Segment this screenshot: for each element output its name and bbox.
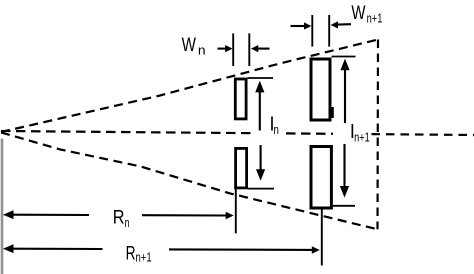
Wn dimension right tick [248,33,250,66]
Rn+1 dimension tick below zone n+1 [321,210,323,266]
zone n lower rectangle [236,148,247,188]
extension line from top of zone n upper rectangle [248,77,274,79]
axis baseline (gray vertical line at left) [1,139,4,274]
extension line from top of zone n+1 upper rectangle [332,56,356,58]
wire: right vertical dashed aperture line [376,40,379,230]
Wn dimension left tick [232,33,234,66]
extension line from bottom of zone n lower rectangle [248,188,274,190]
svg-text:n: n [274,122,279,137]
wire: upper dashed ray from apex to top-right corner [1,40,378,133]
ln+1 upper arrow pointing up [344,67,346,123]
svg-text:n+1: n+1 [136,250,152,265]
Rn dimension line with right arrow [142,214,227,216]
wire: lower dashed ray from apex to bottom-right corner [1,133,378,230]
Wn right arrow pointing left [258,48,270,50]
Rn+1 dimension line with right arrow [169,248,313,251]
svg-text:n: n [125,215,130,230]
zone n upper rectangle [235,79,246,119]
svg-text:n: n [198,43,206,58]
ln+1 lower arrow pointing down [343,144,345,189]
svg-text:W: W [351,3,365,24]
double-stroke artifact on right edge of zone n+1 upper rectangle [331,107,333,118]
svg-text:W: W [182,35,196,56]
svg-text:n+1: n+1 [367,10,383,25]
ln lower arrow pointing down [260,145,262,173]
Rn dimension line with left arrow [3,210,14,219]
Wn left arrow pointing right [218,48,227,50]
wire: central axis dashed line, segment between l_n and l_n+1 labels [286,132,333,135]
svg-text:R: R [126,243,136,264]
Rn+1 dimension line with left arrow [3,244,14,253]
zone n+1 upper rectangle [311,59,330,120]
ln upper arrow pointing up [259,89,261,131]
Wn+1 dimension right tick [328,15,330,47]
wire: central optical axis dashed line, segment left of l_n label [1,131,256,133]
svg-text:n+1: n+1 [354,129,370,144]
Wn+1 dimension left tick [311,15,313,47]
Wn+1 left arrow pointing right [291,25,306,27]
Rn dimension tick below zone n [235,189,237,233]
zone n+1 lower rectangle [311,147,331,209]
Wn+1 right arrow pointing left [337,23,351,25]
extension line from bottom of zone n+1 lower rectangle [333,205,355,207]
wire: central axis dashed line, segment right of l_n+1 label [372,133,474,136]
svg-text:R: R [113,208,125,229]
